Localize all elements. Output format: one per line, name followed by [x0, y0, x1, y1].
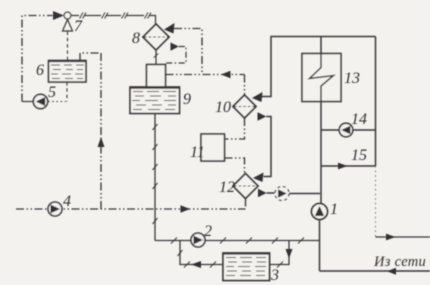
wire tank3 outlet left	[180, 241, 223, 265]
break mark b	[102, 13, 108, 19]
svg-text:9: 9	[183, 91, 191, 108]
svg-text:12: 12	[219, 179, 235, 196]
wire pump5 suction dotted	[48, 101, 66, 103]
wire valve7 to tank6 dashed	[67, 32, 69, 61]
pump P5 circle	[33, 94, 47, 108]
svg-text:6: 6	[36, 62, 44, 79]
break mark d	[145, 13, 151, 19]
filter F12 outlet arrow	[258, 189, 267, 197]
arrow left on tank3 outlet	[191, 261, 201, 268]
pump P2 rotor arrow	[194, 236, 204, 245]
arrow left on return line	[221, 71, 231, 78]
wire pump14 branch	[321, 129, 376, 131]
break mark c	[122, 13, 128, 19]
arrow right on line 15	[338, 163, 348, 170]
pump P5 rotor arrow	[36, 97, 45, 106]
pump P4 rotor arrow	[51, 205, 61, 214]
slash marks drain line	[171, 238, 304, 244]
wire tank6 bottom dashed to pump5	[66, 82, 68, 102]
filter F8 inlet arrow	[164, 23, 175, 34]
pump P14 rotor arrow	[341, 126, 350, 134]
svg-text:7: 7	[74, 18, 83, 35]
wire top line valve7 to filter8	[71, 16, 156, 25]
pump P1 rotor arrow	[315, 206, 324, 216]
wire return line to tank9 with arrow	[166, 74, 245, 76]
wire outlet to network	[376, 236, 430, 238]
wire left vertical dash-dot-dot	[22, 16, 53, 102]
filter F10 outlet arrow	[258, 112, 267, 120]
svg-text:5: 5	[48, 84, 56, 101]
slash marks tank3 outlet	[178, 250, 217, 268]
apparatus 11 box	[201, 134, 225, 161]
svg-text:11: 11	[190, 144, 205, 161]
wire F8 outlet to tank9 box	[166, 47, 186, 64]
wire P0 to main riser	[289, 193, 320, 195]
heat exchanger 13 zigzag	[310, 37, 334, 204]
slash marks drain vertical	[153, 124, 158, 224]
wire inlet from network	[320, 270, 430, 272]
pump P14 circle	[339, 123, 353, 137]
valve V7 spring triangle	[63, 20, 73, 32]
wire line 15 branch	[321, 165, 376, 167]
svg-text:3: 3	[270, 267, 279, 284]
svg-text:2: 2	[204, 223, 212, 240]
arrow right on outlet	[386, 234, 396, 241]
wire F10 outlet down to F12 inlet	[264, 117, 272, 177]
wire suction header dash-dot	[16, 208, 246, 210]
svg-text:14: 14	[351, 111, 367, 128]
wire rect11 to F12 top	[225, 158, 245, 174]
filter F8 outlet arrow	[171, 43, 179, 51]
wire F8 inlet from node J1	[174, 29, 202, 75]
slash mark branch	[277, 262, 283, 268]
filter F12 inlet arrow	[253, 173, 264, 183]
wire F12 bottom to suction header	[245, 199, 247, 210]
wire F8 bottom to box	[155, 50, 157, 65]
tank 6 oil shading	[51, 65, 84, 79]
pump P0 rotor arrow	[278, 189, 287, 198]
tank 9 top edge	[130, 86, 180, 88]
wire right frame vertical solid	[375, 37, 377, 167]
pump P2 circle	[191, 233, 205, 247]
tank 6 body	[49, 61, 87, 83]
break mark e	[154, 54, 158, 58]
wire branch to tank3 with down arrow	[270, 241, 290, 265]
tank 6 top edge	[49, 60, 87, 62]
pump P1 circle	[312, 204, 328, 220]
tank 9 oil shading	[132, 92, 176, 110]
arrow left on inlet	[387, 268, 396, 275]
wire pump5 to left vertical	[22, 101, 33, 103]
svg-text:10: 10	[215, 99, 231, 116]
tank 3 oil shading	[226, 258, 266, 276]
tank 3 body	[223, 253, 270, 281]
wire pump2 drain line	[155, 240, 320, 242]
wire tank6 top stub	[80, 53, 101, 61]
svg-text:Из сети: Из сети	[373, 254, 426, 270]
wire pump1 down to inlet corner	[319, 220, 321, 272]
tank 9 body	[130, 87, 180, 114]
svg-text:15: 15	[351, 147, 367, 164]
valve V7 inlet arrow	[53, 11, 64, 20]
tank 3 top edge	[223, 253, 270, 255]
filter F12 diamond	[233, 174, 258, 199]
arrow up on riser	[98, 137, 105, 147]
wire riser to tank6 dash-dot-dot	[100, 53, 102, 209]
break mark a	[80, 13, 86, 19]
svg-text:8: 8	[132, 30, 140, 47]
filter F12 element dashed	[234, 185, 257, 187]
svg-text:4: 4	[63, 193, 71, 210]
wire right frame vertical dashed	[375, 166, 377, 237]
arrow down on branch	[286, 249, 293, 259]
wire frame top-left down to F10	[262, 37, 376, 97]
svg-text:13: 13	[344, 70, 360, 87]
tank 9 filler box	[147, 65, 166, 88]
filter F10 inlet arrow	[252, 92, 263, 102]
filter F8 diamond	[143, 24, 169, 50]
wire tank9 drain vertical	[154, 114, 156, 241]
wire corner to filter10	[244, 75, 246, 96]
wire F12 outlet to pump P0	[267, 192, 275, 194]
pump P4 circle	[48, 202, 62, 216]
arrow right on suction header	[181, 205, 191, 212]
filter F10 element dashed	[234, 106, 255, 108]
wire F10 bottom to rect11	[225, 118, 245, 139]
heat exchanger 13 box	[302, 54, 341, 102]
filter F10 diamond	[233, 95, 256, 118]
pump P0 dashed circle	[275, 187, 289, 201]
filter F8 element dashed	[144, 36, 168, 38]
valve V7 ball circle	[64, 12, 71, 19]
svg-text:1: 1	[330, 201, 338, 218]
